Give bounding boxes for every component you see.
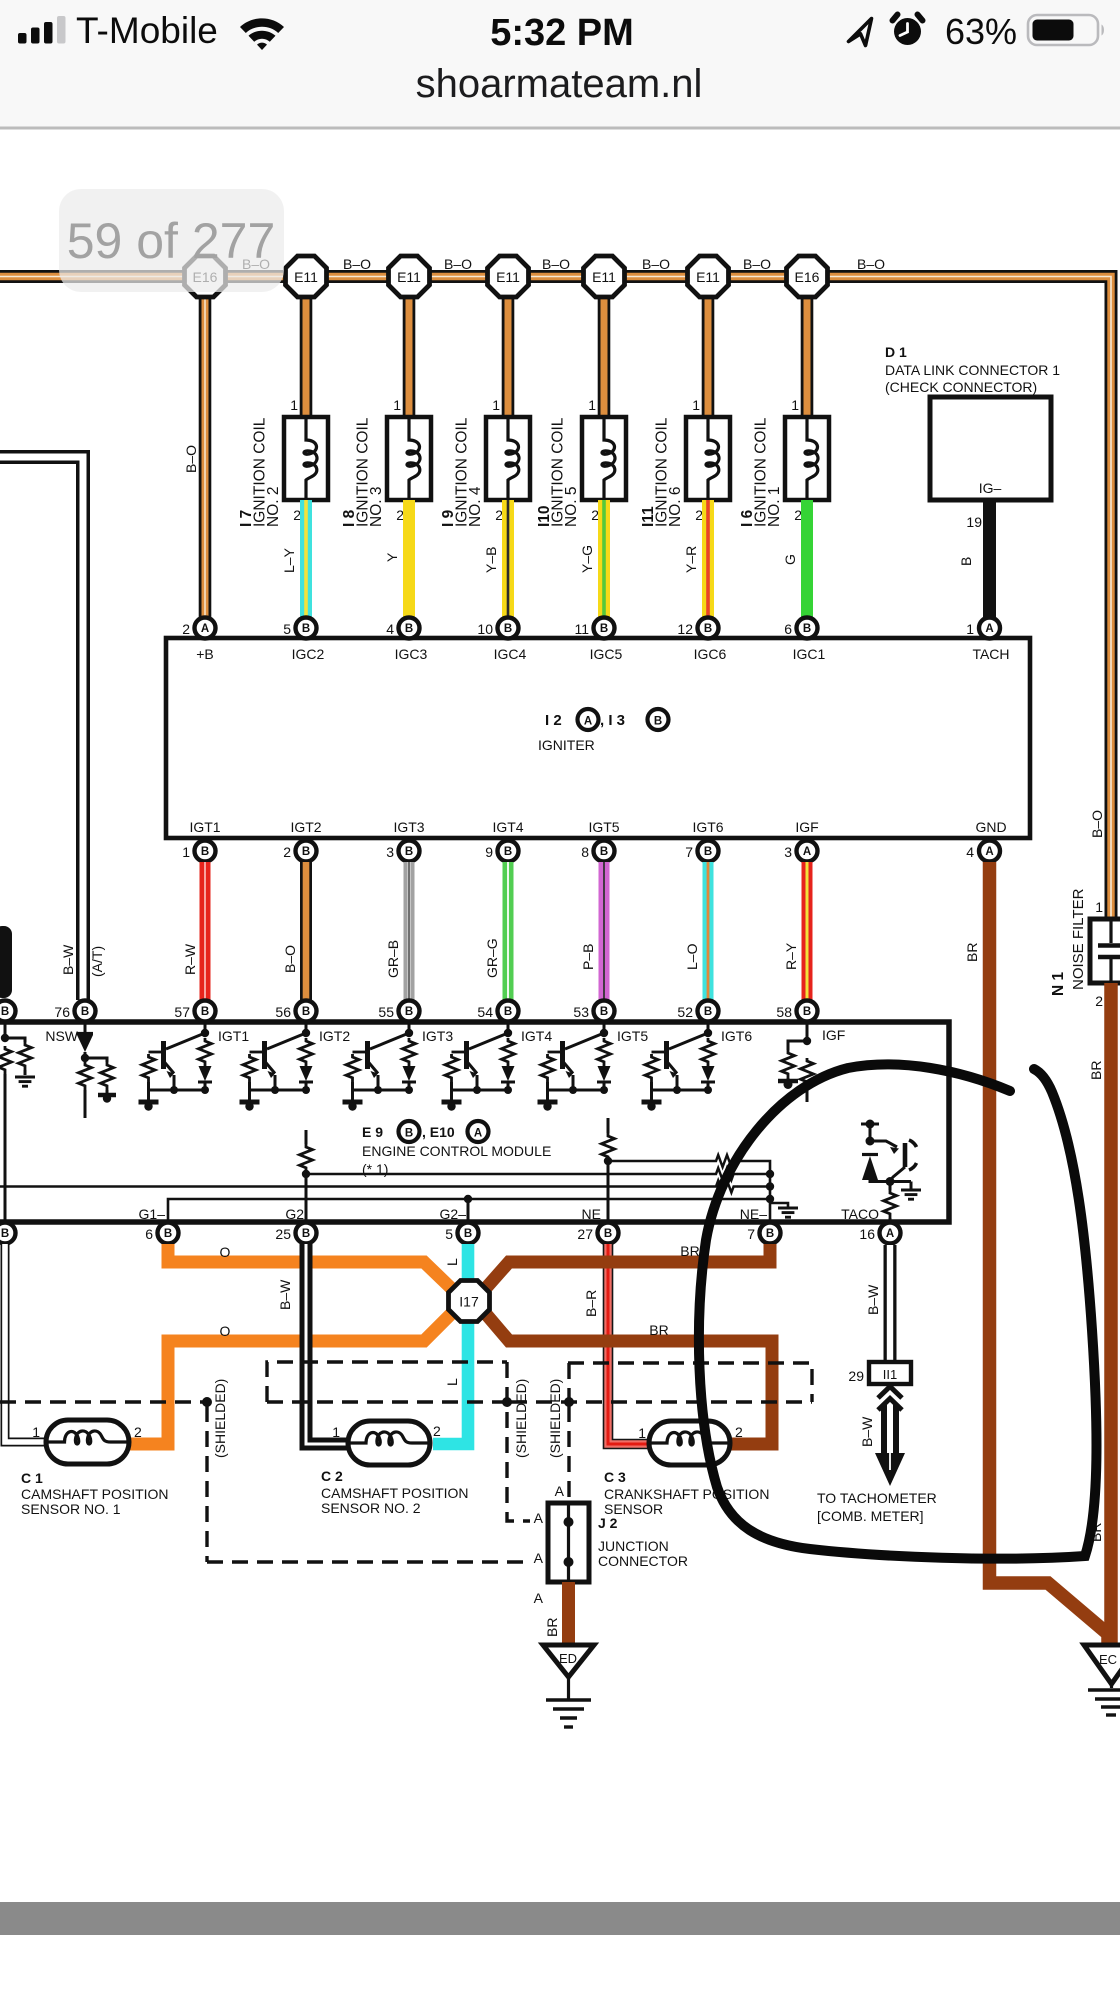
ECM internal G2 sense column — [300, 1130, 313, 1222]
ECM box (engine control module) — [0, 1022, 949, 1222]
svg-text:L–O: L–O — [684, 943, 700, 970]
connector E11 — [688, 256, 729, 297]
ECM bottom pin 16 A (TACO) — [841, 1206, 900, 1244]
svg-text:IGC2: IGC2 — [292, 646, 325, 662]
svg-text:1: 1 — [290, 397, 298, 413]
svg-text:B–O: B–O — [183, 445, 199, 473]
shield dashed box C2 — [267, 1362, 530, 1521]
svg-text:1: 1 — [588, 397, 596, 413]
svg-text:NO. 2: NO. 2 — [265, 487, 282, 527]
wire B stub (black pill) at left edge — [0, 926, 12, 998]
wifi icon — [240, 18, 284, 50]
wire B-O main feed: horizontal bus from left edge, corner at top right, down to noise filter — [0, 277, 1111, 921]
wire GR-G igniter IGT4 to ECM 54 — [484, 862, 508, 1000]
svg-text:IGC1: IGC1 — [793, 646, 826, 662]
svg-text:E 9: E 9 — [362, 1124, 383, 1140]
svg-text:11: 11 — [574, 621, 589, 637]
igniter top pin 10 B (IGC4) — [477, 618, 526, 663]
ignition coil I9 — [440, 397, 530, 527]
hand-drawn highlight circle — [699, 1064, 1097, 1558]
svg-text:B–O: B–O — [1089, 810, 1105, 838]
wire G coil I6 to igniter IGC1 — [782, 500, 807, 617]
svg-text:7: 7 — [747, 1226, 755, 1242]
wire R-W igniter IGT1 to ECM 57 — [182, 862, 205, 1000]
status bar separator — [0, 127, 1120, 130]
wire BR noise filter to EC ground — [1088, 983, 1111, 1652]
svg-text:I17: I17 — [459, 1294, 479, 1310]
svg-text:2: 2 — [433, 1423, 441, 1439]
wire B from D1 IG- to igniter TACH pin 19 — [958, 500, 990, 617]
svg-text:NO. 4: NO. 4 — [467, 486, 484, 527]
svg-text:1: 1 — [182, 844, 190, 860]
igniter bottom pin 3 B (IGT3) — [386, 819, 425, 862]
svg-text:B–O: B–O — [743, 256, 771, 272]
svg-text:IG–: IG– — [979, 480, 1002, 496]
svg-text:IGT5: IGT5 — [617, 1028, 648, 1044]
wire L ECM G2- through I17 to C2 pin 2 — [433, 1244, 468, 1444]
ECM internal bus line 2 with resistor — [306, 1168, 774, 1180]
ECM top pin 52 B (IGT6) — [677, 1001, 718, 1022]
svg-text:L: L — [444, 1258, 460, 1266]
svg-text:2: 2 — [735, 1424, 743, 1440]
svg-text:G: G — [782, 554, 798, 565]
igniter top pin 1 A (TACH) — [966, 618, 1009, 663]
ECM internal bus line 1 with resistor — [608, 1155, 770, 1222]
page number badge 59 of 277 — [59, 189, 284, 292]
svg-text:NO. 3: NO. 3 — [368, 487, 385, 527]
igniter top pin 2 A (+B) — [182, 618, 215, 663]
wire Y coil I8 to igniter IGC3 — [384, 500, 409, 617]
svg-text:B: B — [654, 716, 662, 728]
wire Y-G coil I10 to igniter IGC5 — [579, 500, 604, 617]
alarm clock icon — [893, 15, 923, 46]
wire B-O igniter IGT2 to ECM 56 — [282, 862, 306, 1000]
battery icon — [1028, 15, 1104, 45]
svg-text:R–Y: R–Y — [783, 942, 799, 970]
ground ED — [543, 1645, 594, 1727]
svg-text:3: 3 — [784, 844, 792, 860]
svg-text:1: 1 — [332, 1424, 340, 1440]
svg-text:B–W: B–W — [865, 1284, 881, 1315]
ECM internal IGF cell — [778, 1022, 845, 1102]
svg-text:9: 9 — [485, 844, 493, 860]
svg-text:O: O — [220, 1244, 231, 1260]
ECM internal driver cell IGT3 — [343, 1022, 454, 1111]
svg-text:T-Mobile: T-Mobile — [76, 10, 218, 51]
location arrow icon — [849, 19, 872, 46]
wire R-Y igniter IGF to ECM 58 — [783, 862, 807, 1000]
svg-text:5:32 PM: 5:32 PM — [490, 12, 634, 54]
status bar background — [0, 0, 1120, 128]
svg-text:1: 1 — [966, 621, 974, 637]
ECM internal leftmost pull-up cell — [0, 1022, 35, 1222]
svg-text:IGC4: IGC4 — [494, 646, 527, 662]
ignition coil I8 — [341, 397, 431, 527]
svg-text:B–O: B–O — [444, 256, 472, 272]
svg-text:[COMB. METER]: [COMB. METER] — [817, 1508, 924, 1524]
svg-text:A: A — [584, 716, 592, 728]
svg-text:5: 5 — [445, 1226, 453, 1242]
wire W ECM to C1 pin 1 — [5, 1244, 46, 1442]
wire O connector I17 to C1 pin 2 (lower run) — [129, 1313, 452, 1444]
svg-text:53: 53 — [573, 1004, 589, 1020]
svg-text:IGT2: IGT2 — [319, 1028, 350, 1044]
connector E11 — [488, 256, 529, 297]
wire L-O igniter IGT6 to ECM 52 — [684, 862, 708, 1000]
svg-text:29: 29 — [848, 1368, 864, 1384]
ECM internal driver cell IGT6 — [642, 1022, 753, 1111]
shield dashed box C1 — [0, 1379, 530, 1562]
igniter top pin 4 B (IGC3) — [386, 618, 427, 663]
svg-text:E11: E11 — [397, 269, 421, 285]
wire BR J2 to ED ground — [534, 1582, 569, 1647]
svg-text:G2–: G2– — [440, 1206, 467, 1222]
igniter bottom pin 9 B (IGT4) — [485, 819, 524, 862]
svg-text:IGT6: IGT6 — [721, 1028, 752, 1044]
ECM top pin 54 B (IGT4) — [477, 1001, 518, 1022]
svg-text:NOISE FILTER: NOISE FILTER — [1070, 888, 1087, 990]
connector E16 — [185, 256, 226, 297]
svg-text:TO TACHOMETER: TO TACHOMETER — [817, 1490, 937, 1506]
svg-text:76: 76 — [54, 1004, 70, 1020]
svg-text:BR: BR — [544, 1618, 560, 1637]
svg-text:BR: BR — [680, 1243, 699, 1259]
svg-text:CONNECTOR: CONNECTOR — [598, 1553, 688, 1569]
svg-text:19: 19 — [966, 514, 982, 530]
wire B-O drop to ignition coil I8 — [383, 298, 409, 452]
igniter top pin 6 B (IGC1) — [784, 618, 825, 663]
ECM internal NE sense column — [602, 1118, 615, 1222]
svg-text:54: 54 — [477, 1004, 493, 1020]
svg-text:L: L — [444, 1378, 460, 1386]
connector D1 data link connector 1 — [885, 344, 1060, 500]
wire B-O drop to ignition coil I7 — [280, 298, 306, 452]
svg-text:8: 8 — [581, 844, 589, 860]
svg-text:IGF: IGF — [822, 1027, 845, 1043]
ECM bottom pin 7 B (NE-) — [740, 1206, 781, 1244]
ignition coil I7 — [238, 397, 328, 527]
svg-text:Y–B: Y–B — [483, 547, 499, 573]
svg-text:IGT2: IGT2 — [290, 819, 321, 835]
svg-text:IGC5: IGC5 — [590, 646, 623, 662]
wire B-W (A/T) to ECM 76 — [0, 457, 105, 1000]
ECM top pin 53 B (IGT5) — [573, 1001, 614, 1022]
scrollbar gray bar — [0, 1902, 1120, 1935]
svg-text:Y–G: Y–G — [579, 545, 595, 573]
svg-text:ED: ED — [559, 1651, 577, 1666]
wire B-R ECM NE to C3 pin 1 — [583, 1244, 649, 1444]
ECM bottom pin 6 B (G1-) — [139, 1206, 179, 1244]
svg-text:IGC6: IGC6 — [694, 646, 727, 662]
svg-text:BR: BR — [964, 943, 980, 962]
svg-text:NE–: NE– — [740, 1206, 767, 1222]
svg-text:56: 56 — [275, 1004, 291, 1020]
svg-text:55: 55 — [378, 1004, 394, 1020]
igniter top pin 12 B (IGC6) — [677, 618, 726, 663]
svg-text:A: A — [534, 1510, 544, 1526]
svg-text:IGT3: IGT3 — [393, 819, 424, 835]
svg-text:CRANKSHAFT POSITION: CRANKSHAFT POSITION — [604, 1486, 769, 1502]
connector I17 — [449, 1281, 490, 1322]
svg-text:2: 2 — [134, 1424, 142, 1440]
ignition coil I11 — [640, 397, 730, 527]
svg-text:(A/T): (A/T) — [89, 946, 105, 977]
camshaft position sensor C2 — [321, 1421, 469, 1516]
svg-text:E11: E11 — [294, 269, 318, 285]
svg-text:10: 10 — [477, 621, 493, 637]
noise filter N1 — [1050, 810, 1120, 1009]
svg-text:B: B — [405, 1128, 413, 1140]
label to tachometer — [817, 1490, 937, 1524]
svg-text:2: 2 — [182, 621, 190, 637]
igniter bottom pin 2 B (IGT2) — [283, 819, 322, 862]
svg-text:IGC3: IGC3 — [395, 646, 428, 662]
svg-text:J 2: J 2 — [598, 1515, 618, 1531]
igniter bottom pin 4 A (GND) — [966, 819, 1006, 862]
svg-text:1: 1 — [32, 1424, 40, 1440]
ECM internal TACO output cell — [861, 1120, 921, 1223]
wire Y-B coil I9 to igniter IGC4 — [483, 500, 508, 617]
svg-text:12: 12 — [677, 621, 693, 637]
junction connector J2 — [534, 1483, 688, 1582]
svg-text:2: 2 — [1095, 993, 1103, 1009]
svg-text:(CHECK CONNECTOR): (CHECK CONNECTOR) — [885, 379, 1037, 395]
svg-text:B: B — [958, 557, 974, 566]
shield dashed box C3 — [511, 1363, 812, 1503]
svg-text:Y–R: Y–R — [683, 546, 699, 573]
svg-text:1: 1 — [692, 397, 700, 413]
svg-text:B–R: B–R — [583, 1290, 599, 1317]
ignition coil I6 — [739, 397, 829, 527]
ECM bottom pin 5 B (G2-) — [440, 1206, 479, 1244]
wire B-O drop to ignition coil I10 — [578, 298, 604, 452]
wire Y-R coil I11 to igniter IGC6 — [683, 500, 708, 617]
svg-text:1: 1 — [791, 397, 799, 413]
ECM top pin 56 B (IGT2) — [275, 1001, 316, 1022]
svg-text:CAMSHAFT POSITION: CAMSHAFT POSITION — [21, 1486, 169, 1502]
svg-text:58: 58 — [776, 1004, 792, 1020]
svg-text:II1: II1 — [883, 1367, 897, 1382]
svg-text:IGT3: IGT3 — [422, 1028, 453, 1044]
connector E16 — [787, 256, 828, 297]
svg-text:A: A — [534, 1550, 544, 1566]
svg-text:1: 1 — [492, 397, 500, 413]
svg-text:C 2: C 2 — [321, 1468, 343, 1484]
igniter top pin 5 B (IGC2) — [283, 618, 324, 663]
svg-text:BR: BR — [1088, 1061, 1104, 1080]
svg-text:57: 57 — [174, 1004, 190, 1020]
svg-text:IGT4: IGT4 — [492, 819, 523, 835]
svg-text:A: A — [474, 1128, 482, 1140]
ECM bottom pin 27 B (NE) — [577, 1206, 618, 1244]
svg-text:I 2: I 2 — [545, 712, 562, 729]
svg-text:SENSOR NO. 1: SENSOR NO. 1 — [21, 1501, 121, 1517]
ECM top pin 58 B (IGF) — [776, 1001, 817, 1022]
cell signal bars — [18, 16, 66, 44]
svg-text:ENGINE CONTROL MODULE: ENGINE CONTROL MODULE — [362, 1143, 551, 1159]
svg-text:3: 3 — [386, 844, 394, 860]
wire GR-B igniter IGT3 to ECM 55 — [385, 862, 409, 1000]
ECM top pin 76 B (NSW) — [54, 1001, 95, 1022]
svg-text:IGF: IGF — [795, 819, 818, 835]
svg-text:59 of 277: 59 of 277 — [67, 213, 276, 269]
svg-text:DATA LINK CONNECTOR 1: DATA LINK CONNECTOR 1 — [885, 362, 1060, 378]
svg-text:Y: Y — [384, 552, 400, 562]
ECM internal driver cell IGT4 — [442, 1022, 553, 1111]
svg-text:A: A — [555, 1483, 565, 1499]
svg-text:4: 4 — [386, 621, 394, 637]
svg-text:E11: E11 — [592, 269, 616, 285]
svg-text:TACH: TACH — [972, 646, 1009, 662]
svg-text:1: 1 — [393, 397, 401, 413]
svg-text:16: 16 — [859, 1226, 875, 1242]
svg-text:A: A — [534, 1590, 544, 1606]
igniter bottom pin 7 B (IGT6) — [685, 819, 724, 862]
svg-text:B–O: B–O — [857, 256, 885, 272]
svg-text:(SHIELDED): (SHIELDED) — [212, 1379, 228, 1458]
svg-text:IGT1: IGT1 — [218, 1028, 249, 1044]
svg-text:L–Y: L–Y — [281, 547, 297, 573]
svg-text:SENSOR NO. 2: SENSOR NO. 2 — [321, 1500, 421, 1516]
svg-text:NSW: NSW — [45, 1028, 78, 1044]
svg-text:NO. 6: NO. 6 — [667, 487, 684, 527]
wire B-O drop to ignition coil I6 — [781, 298, 807, 452]
svg-text:6: 6 — [784, 621, 792, 637]
wire P-B igniter IGT5 to ECM 53 — [580, 862, 604, 1000]
svg-text:1: 1 — [1095, 899, 1103, 915]
svg-text:4: 4 — [966, 844, 974, 860]
svg-text:JUNCTION: JUNCTION — [598, 1538, 669, 1554]
svg-text:IGT1: IGT1 — [189, 819, 220, 835]
wire B-O drop E16 column to igniter +B — [183, 298, 205, 617]
ECM internal driver cell IGT5 — [538, 1022, 649, 1111]
svg-text:R–W: R–W — [182, 943, 198, 975]
svg-text:B–W: B–W — [859, 1416, 875, 1447]
svg-text:(SHIELDED): (SHIELDED) — [513, 1379, 529, 1458]
svg-text:IGNITER: IGNITER — [538, 737, 595, 753]
svg-text:B–O: B–O — [343, 256, 371, 272]
ground EC — [1084, 1645, 1120, 1715]
svg-text:, E10: , E10 — [422, 1124, 455, 1140]
svg-text:GND: GND — [975, 819, 1006, 835]
igniter top pin 11 B (IGC5) — [574, 618, 622, 663]
svg-text:GR–G: GR–G — [484, 938, 500, 978]
svg-text:52: 52 — [677, 1004, 693, 1020]
svg-text:25: 25 — [275, 1226, 291, 1242]
ECM top pin 57 B (IGT1) — [174, 1001, 215, 1022]
svg-text:NE: NE — [582, 1206, 601, 1222]
igniter bottom pin 8 B (IGT5) — [581, 819, 620, 862]
svg-text:B–W: B–W — [60, 944, 76, 975]
crankshaft position sensor C3 — [604, 1421, 769, 1517]
svg-text:5: 5 — [283, 621, 291, 637]
svg-text:NO. 1: NO. 1 — [766, 487, 783, 527]
svg-text:N 1: N 1 — [1050, 972, 1067, 997]
svg-text:B–W: B–W — [277, 1279, 293, 1310]
svg-text:1: 1 — [638, 1425, 646, 1441]
igniter box I2/I3 — [166, 638, 1030, 838]
svg-text:B–O: B–O — [282, 945, 298, 973]
svg-text:O: O — [220, 1323, 231, 1339]
ECM internal driver cell IGT2 — [240, 1022, 351, 1111]
ECM internal bus line 4 (G1-) — [168, 1195, 774, 1222]
svg-text:shoarmateam.nl: shoarmateam.nl — [416, 62, 703, 106]
ECM bottom pin 25 B (G2) — [275, 1206, 316, 1244]
svg-text:(SHIELDED): (SHIELDED) — [547, 1379, 563, 1458]
svg-text:C 1: C 1 — [21, 1470, 43, 1486]
svg-text:IGT4: IGT4 — [521, 1028, 552, 1044]
wire BR connector I17 to C3 pin 2 (lower run) — [486, 1314, 772, 1444]
ECM internal NE- ground branch — [770, 1203, 798, 1217]
svg-text:NO. 5: NO. 5 — [563, 487, 580, 527]
svg-text:IGT6: IGT6 — [692, 819, 723, 835]
svg-text:E11: E11 — [696, 269, 720, 285]
connector II1 pin 29 — [848, 1362, 911, 1384]
igniter bottom pin 3 A (IGF) — [784, 819, 818, 862]
svg-text:6: 6 — [145, 1226, 153, 1242]
svg-text:TACO: TACO — [841, 1206, 879, 1222]
wire B-W arrow to tachometer — [859, 1387, 905, 1487]
connector E11 — [286, 256, 327, 297]
wire L-Y coil I7 to igniter IGC2 — [281, 500, 306, 617]
ECM bottom pin B (far left) — [0, 1223, 16, 1244]
svg-text:P–B: P–B — [580, 944, 596, 970]
camshaft position sensor C1 — [21, 1420, 169, 1517]
wire B-O drop to ignition coil I9 — [482, 298, 508, 452]
svg-text:7: 7 — [685, 844, 693, 860]
ECM internal driver cell IGT1 — [139, 1022, 250, 1111]
ignition coil I10 — [536, 397, 626, 527]
node B-O labels on horizontal bus — [242, 256, 885, 272]
ECM internal NSW cell with diode — [45, 1022, 116, 1118]
svg-text:GR–B: GR–B — [385, 940, 401, 978]
connector E11 — [584, 256, 625, 297]
svg-text:B–O: B–O — [542, 256, 570, 272]
svg-text:, I 3: , I 3 — [600, 712, 625, 729]
svg-text:C 3: C 3 — [604, 1469, 626, 1485]
svg-text:EC: EC — [1099, 1652, 1117, 1667]
svg-text:+B: +B — [196, 646, 214, 662]
connector E11 — [389, 256, 430, 297]
svg-text:BR: BR — [649, 1322, 668, 1338]
svg-text:E11: E11 — [496, 269, 520, 285]
wire B-W ECM TACO to connector II1 — [865, 1245, 890, 1362]
wire BR ECM NE- to connector I17 (upper run) — [486, 1243, 770, 1288]
svg-text:2: 2 — [283, 844, 291, 860]
svg-text:E16: E16 — [795, 269, 820, 285]
svg-text:B–O: B–O — [642, 256, 670, 272]
svg-text:63%: 63% — [945, 11, 1017, 52]
svg-text:CAMSHAFT POSITION: CAMSHAFT POSITION — [321, 1485, 469, 1501]
igniter bottom pin 1 B (IGT1) — [182, 819, 221, 862]
ECM top pin B (far left) — [0, 1001, 16, 1022]
svg-text:IGT5: IGT5 — [588, 819, 619, 835]
wire B-W ECM G2 to C2 pin 1 — [277, 1244, 348, 1444]
svg-text:D 1: D 1 — [885, 344, 907, 360]
wire B-O drop to ignition coil I11 — [682, 298, 708, 452]
ECM top pin 55 B (IGT3) — [378, 1001, 419, 1022]
svg-text:27: 27 — [577, 1226, 593, 1242]
svg-text:G1–: G1– — [139, 1206, 166, 1222]
ECM internal bus line 3 with resistor — [0, 1181, 774, 1193]
wire BR igniter GND to EC ground — [964, 862, 1108, 1652]
svg-text:G2: G2 — [285, 1206, 304, 1222]
wire O ECM G1- to connector I17 (upper run) — [168, 1244, 452, 1289]
